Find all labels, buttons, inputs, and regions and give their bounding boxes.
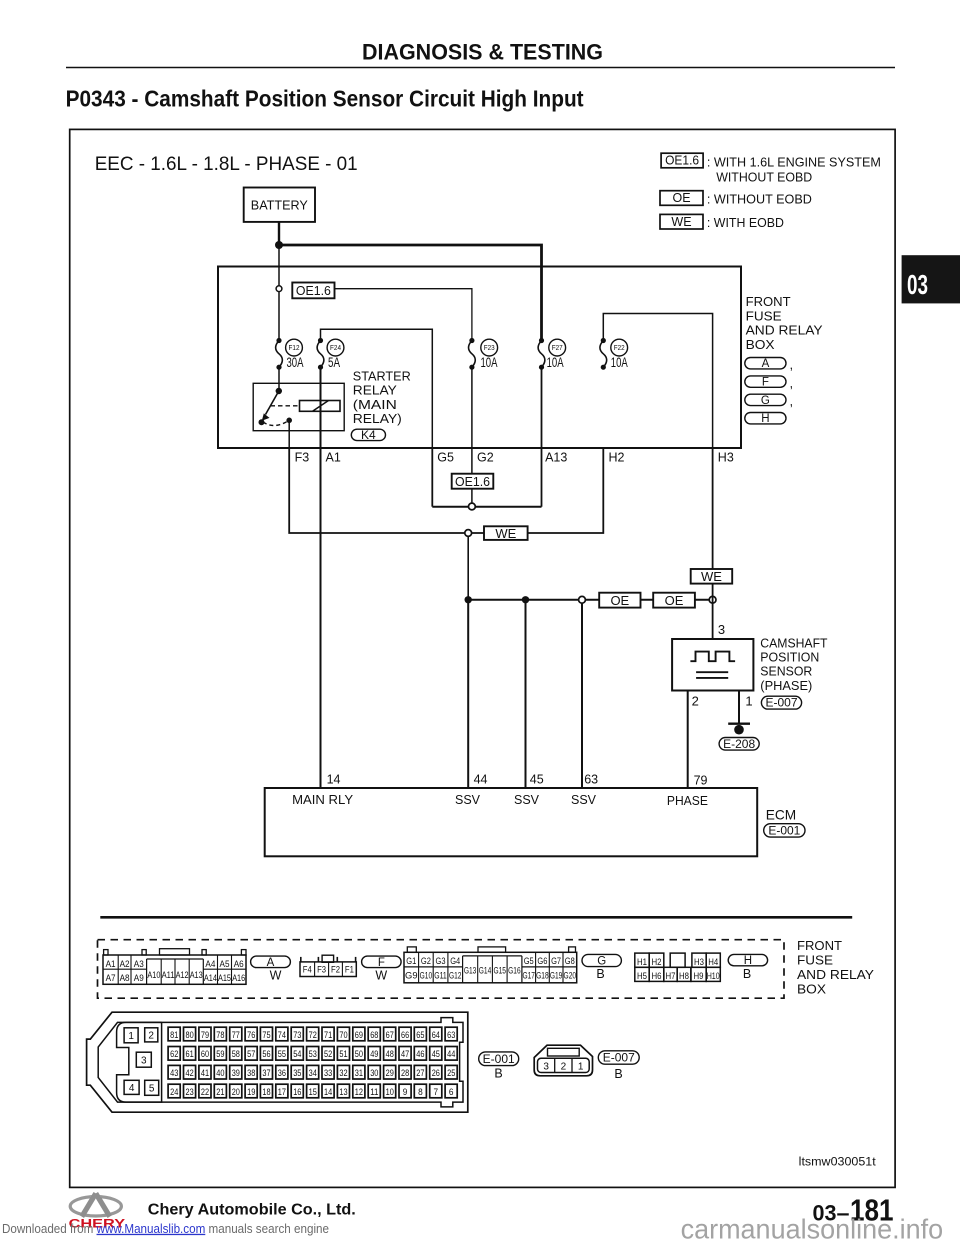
svg-text:80: 80 <box>186 1030 194 1040</box>
svg-text:G5: G5 <box>437 450 454 464</box>
svg-text:E-007: E-007 <box>603 1053 635 1065</box>
svg-text:52: 52 <box>324 1049 332 1059</box>
sensor hall element symbol <box>696 671 728 673</box>
fuse F22 10A <box>600 341 607 368</box>
svg-text:28: 28 <box>401 1068 409 1078</box>
svg-text:35: 35 <box>293 1068 301 1078</box>
svg-text:G: G <box>761 395 770 407</box>
svg-text:2: 2 <box>561 1061 567 1072</box>
svg-text:18: 18 <box>262 1087 270 1097</box>
svg-text:F3: F3 <box>317 964 326 974</box>
wire: sensor pin 1 to ground <box>738 691 740 724</box>
svg-text:SSV: SSV <box>571 793 597 807</box>
sensor connector designator E-007 <box>598 1051 639 1064</box>
svg-text:K4: K4 <box>361 428 376 442</box>
net tag OE (right) <box>653 593 695 608</box>
svg-text:10A: 10A <box>547 355 564 370</box>
connector G housing <box>404 952 577 983</box>
ground designator E-208 <box>719 738 759 751</box>
variant circle on OE1.6 net <box>469 503 476 510</box>
svg-text:AND RELAY: AND RELAY <box>746 323 823 338</box>
net tag OE1.6 (lower) <box>452 474 494 489</box>
variant circle on H3 wire <box>709 596 716 603</box>
svg-text:F23: F23 <box>484 343 495 352</box>
svg-text:73: 73 <box>293 1030 301 1040</box>
connector oval H <box>745 413 786 424</box>
svg-text:A13: A13 <box>545 450 567 464</box>
svg-text:OE: OE <box>610 593 629 608</box>
svg-text:POSITION: POSITION <box>760 650 819 665</box>
svg-text:03: 03 <box>907 269 928 300</box>
svg-text:63: 63 <box>447 1030 455 1040</box>
svg-text:G14: G14 <box>479 966 492 976</box>
svg-text:B: B <box>596 967 604 981</box>
svg-text:Downloaded from www.Manualslib: Downloaded from www.Manualslib.com manua… <box>2 1221 329 1236</box>
svg-text:A16: A16 <box>232 973 245 983</box>
svg-text:24: 24 <box>170 1087 178 1097</box>
svg-text:21: 21 <box>216 1087 224 1097</box>
svg-text:44: 44 <box>474 773 488 787</box>
svg-text:F4: F4 <box>303 964 312 974</box>
chapter tab 03 <box>902 255 960 303</box>
svg-text:WE: WE <box>701 569 722 584</box>
relay K4 starter/main relay <box>253 383 344 430</box>
svg-text:RELAY): RELAY) <box>353 411 402 426</box>
wire: pin 44 run <box>467 600 469 788</box>
svg-text:F22: F22 <box>614 343 625 352</box>
svg-text:(PHASE): (PHASE) <box>760 678 812 693</box>
svg-text:A2: A2 <box>120 959 130 969</box>
wire: F22 jumper to H3 column <box>603 314 712 449</box>
svg-text:55: 55 <box>278 1049 286 1059</box>
svg-text:(MAIN: (MAIN <box>353 397 397 412</box>
svg-text:26: 26 <box>432 1068 440 1078</box>
wire: F24 to ECM pin 14 (A1 column) <box>320 367 322 788</box>
svg-text:39: 39 <box>232 1068 240 1078</box>
svg-text:F24: F24 <box>330 343 341 352</box>
relay contact terminal <box>259 419 265 425</box>
svg-text:RELAY: RELAY <box>353 383 397 398</box>
svg-text:F27: F27 <box>552 343 563 352</box>
svg-text:37: 37 <box>262 1068 270 1078</box>
svg-text:H3: H3 <box>694 957 704 967</box>
connector designator E-007 <box>761 696 801 709</box>
svg-text:22: 22 <box>201 1087 209 1097</box>
ECM designator E-001 <box>764 824 805 837</box>
wire: bus drop to fuse F12 <box>278 245 280 341</box>
svg-text:H4: H4 <box>708 957 718 967</box>
header rule <box>66 67 895 69</box>
variant circle on WE net <box>465 530 472 537</box>
chery logo emblem <box>70 1193 121 1216</box>
junction: pin 45 wire <box>522 596 529 603</box>
svg-text:1: 1 <box>578 1061 584 1072</box>
connector A designator <box>251 956 291 968</box>
legend tag OE1.6 <box>661 153 703 168</box>
svg-text:A13: A13 <box>190 970 203 980</box>
svg-text:11: 11 <box>370 1087 378 1097</box>
svg-text:61: 61 <box>186 1049 194 1059</box>
connector H cells <box>635 953 649 967</box>
svg-text:E-007: E-007 <box>766 698 798 710</box>
svg-text:54: 54 <box>293 1049 301 1059</box>
svg-text:H9: H9 <box>694 971 704 981</box>
svg-text:BATTERY: BATTERY <box>251 197 308 212</box>
wire: battery to bus junction <box>278 222 280 245</box>
connector G cells <box>404 966 463 968</box>
svg-text:E-208: E-208 <box>723 739 755 751</box>
svg-text:OE1.6: OE1.6 <box>296 283 331 298</box>
sensor square-wave symbol <box>690 652 735 662</box>
ECM box <box>265 788 758 856</box>
svg-text:G2: G2 <box>477 450 494 464</box>
svg-text:5A: 5A <box>328 355 340 370</box>
svg-text:H: H <box>761 413 769 425</box>
relay pivot <box>276 388 282 394</box>
svg-text:A3: A3 <box>134 959 144 969</box>
svg-text:71: 71 <box>324 1030 332 1040</box>
svg-text:G20: G20 <box>564 971 577 981</box>
svg-text:ECM: ECM <box>766 808 796 823</box>
svg-text:BOX: BOX <box>797 981 826 996</box>
svg-text:25: 25 <box>447 1068 455 1078</box>
svg-text:20: 20 <box>232 1087 240 1097</box>
connector oval A <box>745 358 786 369</box>
front fuse and relay box outline <box>218 267 741 449</box>
svg-text:A11: A11 <box>162 970 175 980</box>
svg-text:A: A <box>762 358 770 370</box>
wire: F3 drop and WE net bus to H2 <box>289 448 603 533</box>
svg-text:17: 17 <box>278 1087 286 1097</box>
svg-text:: WITH 1.6L ENGINE SYSTEM: : WITH 1.6L ENGINE SYSTEM <box>707 154 881 169</box>
connector A key tabs <box>104 950 108 955</box>
svg-text:H10: H10 <box>707 971 720 981</box>
svg-text:3: 3 <box>543 1061 549 1072</box>
svg-text:33: 33 <box>324 1068 332 1078</box>
wire: SSV node bus <box>468 599 712 601</box>
svg-text:H2: H2 <box>609 450 625 464</box>
svg-text:56: 56 <box>262 1049 270 1059</box>
svg-text:DIAGNOSIS & TESTING: DIAGNOSIS & TESTING <box>362 40 603 65</box>
variant circle on F12 feed <box>276 286 282 292</box>
connector F designator <box>362 956 402 968</box>
connector A cells <box>103 968 147 970</box>
wire: pin 63 run <box>581 603 583 788</box>
svg-text:34: 34 <box>309 1068 317 1078</box>
svg-text:36: 36 <box>278 1068 286 1078</box>
connector oval F <box>745 376 786 387</box>
svg-text:14: 14 <box>327 773 341 787</box>
svg-text:58: 58 <box>232 1049 240 1059</box>
svg-text:WITHOUT EOBD: WITHOUT EOBD <box>716 170 812 185</box>
svg-text:G1: G1 <box>406 956 416 966</box>
svg-text:G2: G2 <box>421 956 431 966</box>
svg-text:E-001: E-001 <box>483 1054 515 1066</box>
svg-text:7: 7 <box>434 1087 439 1097</box>
relay dashed contact arc <box>263 421 288 426</box>
svg-text:FUSE: FUSE <box>797 952 833 967</box>
svg-text:23: 23 <box>186 1087 194 1097</box>
wire: WE net to SSV node <box>467 536 469 599</box>
svg-text:H5: H5 <box>637 971 647 981</box>
svg-text:G15: G15 <box>493 966 506 976</box>
svg-text:H1: H1 <box>637 957 647 967</box>
svg-text:1: 1 <box>745 693 752 708</box>
svg-text:66: 66 <box>401 1030 409 1040</box>
svg-text:59: 59 <box>216 1049 224 1059</box>
svg-text:15: 15 <box>309 1087 317 1097</box>
svg-text:A4: A4 <box>205 959 215 969</box>
svg-text:B: B <box>743 967 751 981</box>
svg-text:10A: 10A <box>611 355 628 370</box>
svg-text:A14: A14 <box>204 973 217 983</box>
svg-text:H3: H3 <box>718 450 734 464</box>
svg-text:A8: A8 <box>120 973 130 983</box>
svg-text:,: , <box>790 375 794 390</box>
relay designator K4 <box>351 429 385 440</box>
svg-text:F1: F1 <box>345 964 354 974</box>
wire: OE1.6 jumper to fuse F23 <box>335 289 472 341</box>
svg-text:31: 31 <box>355 1068 363 1078</box>
svg-text:,: , <box>790 357 794 372</box>
svg-text:OE: OE <box>672 191 690 205</box>
svg-text:4: 4 <box>129 1083 135 1094</box>
svg-text:G: G <box>597 956 606 968</box>
svg-text:: WITH EOBD: : WITH EOBD <box>707 215 784 230</box>
svg-text:F12: F12 <box>289 343 300 352</box>
wire: pin 45 run <box>525 600 527 788</box>
svg-text:F2: F2 <box>331 964 340 974</box>
connector detail dashed frame <box>98 940 785 999</box>
svg-text:B: B <box>494 1067 502 1081</box>
svg-text:EEC - 1.6L - 1.8L - PHASE - 01: EEC - 1.6L - 1.8L - PHASE - 01 <box>95 153 358 175</box>
svg-text:42: 42 <box>186 1068 194 1078</box>
svg-text:A7: A7 <box>106 973 116 983</box>
relay output node <box>286 418 292 424</box>
svg-text:OE1.6: OE1.6 <box>455 474 490 489</box>
svg-text:51: 51 <box>339 1049 347 1059</box>
svg-text:76: 76 <box>247 1030 255 1040</box>
svg-text:BOX: BOX <box>746 337 775 352</box>
svg-text:48: 48 <box>386 1049 394 1059</box>
svg-text:69: 69 <box>355 1030 363 1040</box>
wire: sensor pin 2 to ECM pin 79 <box>687 691 689 789</box>
wire: H3 run to sensor pin 3 <box>712 448 714 639</box>
svg-text:50: 50 <box>355 1049 363 1059</box>
svg-text:A: A <box>267 957 275 969</box>
svg-text:30A: 30A <box>287 355 304 370</box>
net tag WE (left) <box>484 526 528 540</box>
connector G designator <box>582 954 621 966</box>
svg-text:45: 45 <box>432 1049 440 1059</box>
sensor connector E-007 housing <box>534 1045 592 1076</box>
svg-text:MAIN RLY: MAIN RLY <box>292 793 354 807</box>
svg-text:9: 9 <box>403 1087 408 1097</box>
svg-text:63: 63 <box>584 773 598 787</box>
svg-text:1: 1 <box>128 1031 134 1042</box>
wire: F12 to relay K4 <box>278 367 280 391</box>
schematic frame <box>70 129 895 1187</box>
svg-text:H2: H2 <box>652 957 662 967</box>
wire: relay output to F3 <box>288 420 290 448</box>
svg-text:OE: OE <box>665 593 684 608</box>
svg-text:carmanualsonline.info: carmanualsonline.info <box>681 1213 944 1242</box>
svg-text:A12: A12 <box>176 970 189 980</box>
svg-text:12: 12 <box>355 1087 363 1097</box>
svg-text:: WITHOUT EOBD: : WITHOUT EOBD <box>707 191 812 206</box>
svg-text:41: 41 <box>201 1068 209 1078</box>
svg-text:5: 5 <box>149 1083 155 1094</box>
svg-text:G6: G6 <box>537 956 547 966</box>
svg-text:57: 57 <box>247 1049 255 1059</box>
svg-text:G13: G13 <box>464 966 477 976</box>
svg-text:75: 75 <box>262 1030 270 1040</box>
ECM connector pin grid <box>168 1027 180 1041</box>
svg-text:H6: H6 <box>652 971 662 981</box>
legend tag OE <box>660 191 703 206</box>
svg-text:10: 10 <box>386 1087 394 1097</box>
svg-text:67: 67 <box>386 1030 394 1040</box>
ground E-208 <box>728 723 750 725</box>
svg-text:F: F <box>762 377 769 389</box>
svg-text:A10: A10 <box>147 970 160 980</box>
svg-text:H7: H7 <box>666 971 676 981</box>
svg-text:19: 19 <box>247 1087 255 1097</box>
sensor connector cells 3 2 1 <box>538 1058 590 1072</box>
svg-text:B: B <box>614 1067 622 1081</box>
net tag WE (on H3) <box>691 569 733 584</box>
svg-text:W: W <box>270 969 282 983</box>
svg-text:10A: 10A <box>481 355 498 370</box>
battery B+ <box>244 188 315 222</box>
svg-text:72: 72 <box>309 1030 317 1040</box>
camshaft position sensor U1 <box>672 639 753 691</box>
svg-text:A9: A9 <box>134 973 144 983</box>
svg-text:79: 79 <box>201 1030 209 1040</box>
connector G key tabs <box>407 947 416 952</box>
svg-text:G7: G7 <box>551 956 561 966</box>
svg-text:FRONT: FRONT <box>797 938 842 953</box>
fuse F27 10A <box>538 341 545 368</box>
junction: pin 44 wire <box>465 596 472 603</box>
svg-text:F3: F3 <box>295 450 310 464</box>
svg-text:H: H <box>744 955 752 967</box>
svg-text:49: 49 <box>370 1049 378 1059</box>
svg-text:A5: A5 <box>220 959 230 969</box>
svg-text:E-001: E-001 <box>768 825 800 837</box>
svg-text:45: 45 <box>530 773 544 787</box>
svg-text:SSV: SSV <box>455 793 481 807</box>
svg-text:G16: G16 <box>508 966 521 976</box>
svg-text:G9: G9 <box>405 971 418 981</box>
svg-text:79: 79 <box>694 774 708 788</box>
fuse F12 30A <box>276 341 283 368</box>
svg-text:CAMSHAFT: CAMSHAFT <box>760 635 827 650</box>
svg-text:53: 53 <box>309 1049 317 1059</box>
svg-text:G11: G11 <box>434 971 447 981</box>
legend tag WE <box>660 214 703 229</box>
svg-text:64: 64 <box>432 1030 440 1040</box>
svg-text:A1: A1 <box>326 450 341 464</box>
svg-text:8: 8 <box>418 1087 423 1097</box>
svg-text:G3: G3 <box>436 956 446 966</box>
svg-text:62: 62 <box>170 1049 178 1059</box>
svg-text:PHASE: PHASE <box>667 794 708 808</box>
wire: G2 drop through OE1.6 tag <box>471 367 473 503</box>
connector A housing <box>103 955 246 984</box>
svg-text:H8: H8 <box>679 971 689 981</box>
svg-text:77: 77 <box>232 1030 240 1040</box>
svg-text:70: 70 <box>339 1030 347 1040</box>
svg-text:G12: G12 <box>449 971 462 981</box>
svg-text:G5: G5 <box>524 956 534 966</box>
relay coil <box>300 401 341 412</box>
svg-text:32: 32 <box>339 1068 347 1078</box>
wire: battery bus to F27 column <box>279 245 542 341</box>
relay actuation dashed link <box>271 405 299 407</box>
svg-text:SENSOR: SENSOR <box>760 664 812 679</box>
svg-text:G8: G8 <box>565 956 575 966</box>
ECM connector key section <box>117 1022 162 1102</box>
svg-text:OE1.6: OE1.6 <box>665 154 699 168</box>
svg-text:A15: A15 <box>218 973 231 983</box>
svg-text:A1: A1 <box>106 959 116 969</box>
wire: F24 jumper to G5 column <box>321 329 433 448</box>
svg-text:27: 27 <box>416 1068 424 1078</box>
svg-text:30: 30 <box>370 1068 378 1078</box>
ECM connector designator E-001 <box>479 1052 519 1066</box>
svg-text:44: 44 <box>447 1049 455 1059</box>
svg-text:13: 13 <box>339 1087 347 1097</box>
svg-text:STARTER: STARTER <box>353 368 411 383</box>
wire: OE1.6 net bus <box>432 506 541 508</box>
fuse F24 5A <box>317 341 324 368</box>
ECM connector E-001 housing <box>87 1012 468 1112</box>
svg-text:FRONT: FRONT <box>746 294 791 309</box>
variant circle on pin 63 wire <box>579 596 586 603</box>
connector H designator <box>728 954 767 965</box>
svg-text:2: 2 <box>692 693 699 708</box>
svg-text:G10: G10 <box>420 971 433 981</box>
svg-text:2: 2 <box>148 1030 154 1041</box>
svg-text:16: 16 <box>293 1087 301 1097</box>
separator rule <box>100 916 852 919</box>
svg-text:47: 47 <box>401 1049 409 1059</box>
svg-text:38: 38 <box>247 1068 255 1078</box>
svg-text:G17: G17 <box>522 971 535 981</box>
ECM connector cells 1-5 <box>124 1028 138 1043</box>
svg-text:74: 74 <box>278 1030 286 1040</box>
wire: G5 drop to OE1.6 net <box>431 448 433 507</box>
ECM connector inner shell <box>98 1018 463 1107</box>
svg-text:P0343 - Camshaft Position Sens: P0343 - Camshaft Position Sensor Circuit… <box>66 86 584 112</box>
svg-text:6: 6 <box>449 1087 454 1097</box>
svg-text:AND RELAY: AND RELAY <box>797 967 874 982</box>
svg-text:78: 78 <box>216 1030 224 1040</box>
svg-text:3: 3 <box>141 1055 147 1066</box>
svg-text:F: F <box>378 957 385 969</box>
relay switch arm <box>266 391 279 415</box>
svg-text:60: 60 <box>201 1049 209 1059</box>
svg-text:WE: WE <box>671 215 691 229</box>
svg-text:G4: G4 <box>450 956 460 966</box>
svg-text:W: W <box>375 969 387 983</box>
connector F housing <box>300 962 356 977</box>
svg-text:Chery Automobile Co., Ltd.: Chery Automobile Co., Ltd. <box>148 1202 356 1219</box>
svg-text:43: 43 <box>170 1068 178 1078</box>
svg-text:,: , <box>790 394 794 409</box>
svg-text:3: 3 <box>718 622 725 637</box>
